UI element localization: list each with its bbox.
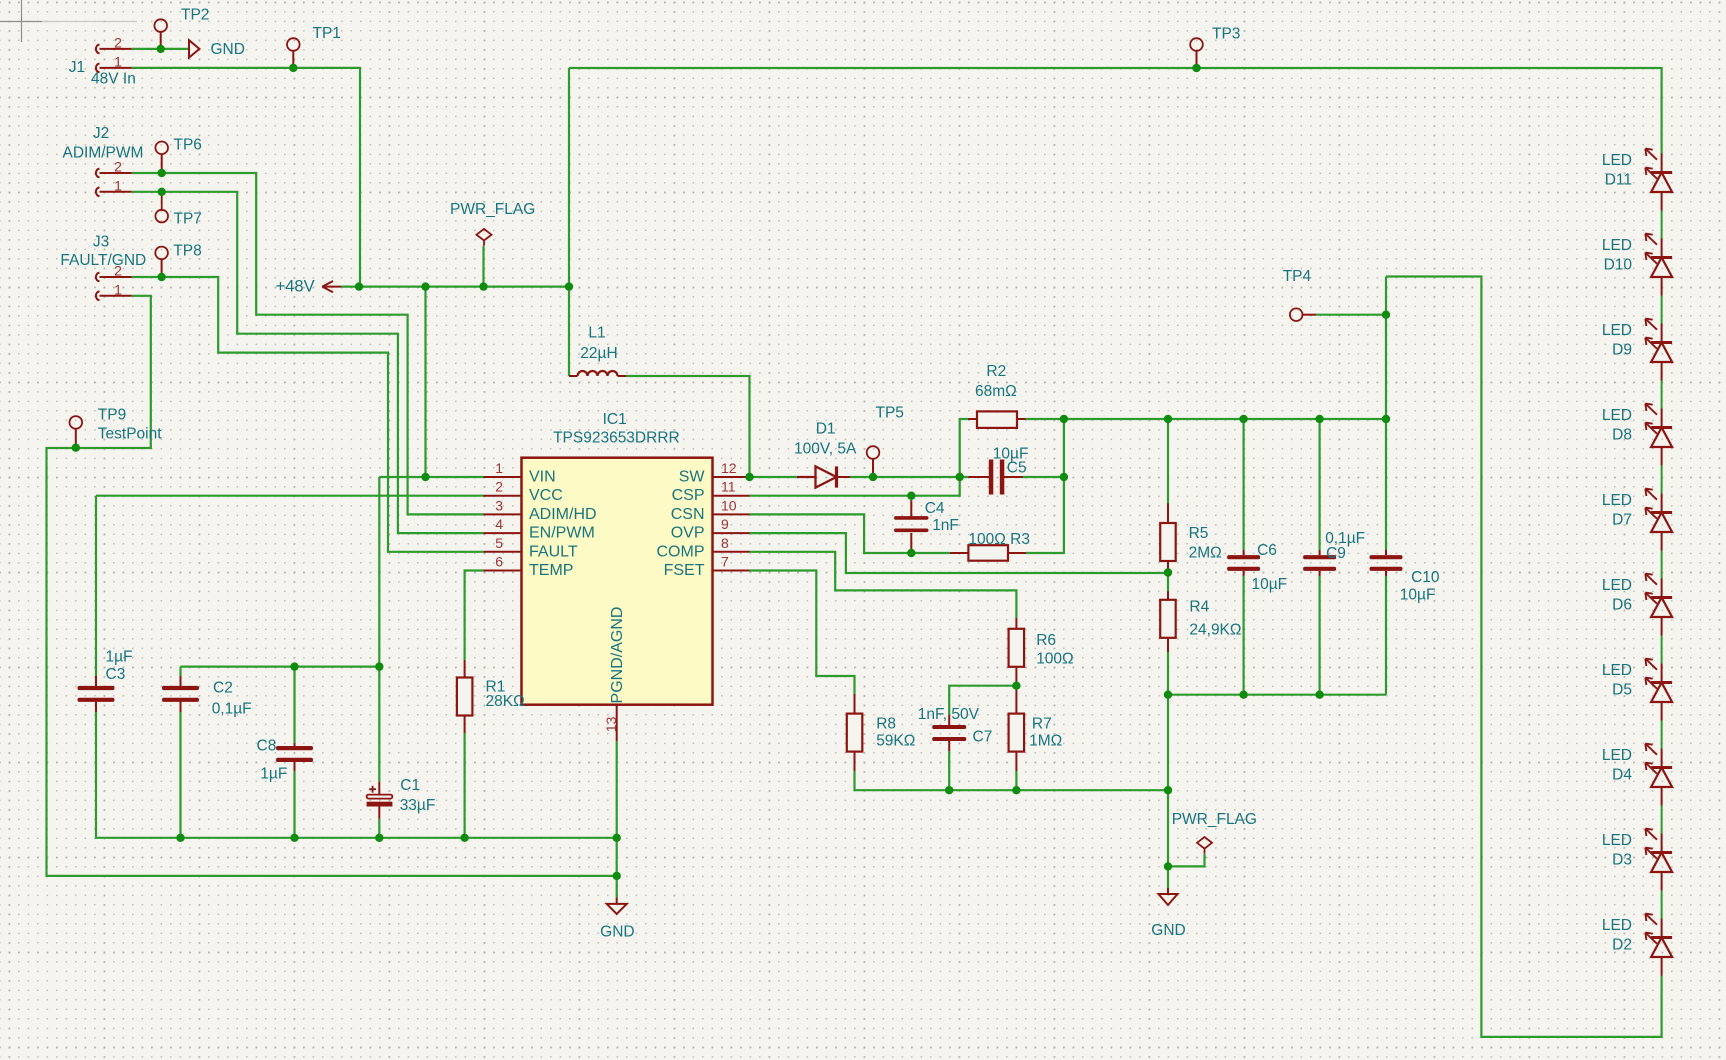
svg-text:ADIM/PWM: ADIM/PWM: [63, 145, 144, 162]
svg-text:IC1: IC1: [603, 411, 627, 428]
svg-text:J3: J3: [93, 234, 109, 251]
svg-text:3: 3: [495, 497, 503, 513]
svg-text:LED: LED: [1602, 832, 1632, 849]
svg-text:R8: R8: [876, 716, 896, 733]
svg-text:4: 4: [495, 516, 503, 532]
svg-text:8: 8: [721, 535, 729, 551]
svg-text:10µF: 10µF: [1252, 576, 1288, 593]
svg-text:C3: C3: [106, 666, 126, 683]
svg-text:28KΩ: 28KΩ: [486, 693, 525, 710]
svg-text:R4: R4: [1189, 599, 1209, 616]
svg-text:D8: D8: [1612, 427, 1632, 444]
svg-text:TP4: TP4: [1283, 268, 1312, 285]
svg-text:C5: C5: [1007, 459, 1027, 476]
svg-text:9: 9: [721, 516, 729, 532]
svg-text:D11: D11: [1605, 172, 1632, 189]
svg-text:FAULT/GND: FAULT/GND: [60, 252, 146, 269]
svg-text:D2: D2: [1612, 937, 1632, 954]
svg-text:TP8: TP8: [173, 243, 201, 260]
svg-text:2MΩ: 2MΩ: [1189, 545, 1222, 562]
svg-text:R5: R5: [1189, 525, 1209, 542]
svg-text:7: 7: [721, 554, 729, 570]
svg-text:VCC: VCC: [529, 487, 563, 504]
svg-text:48V In: 48V In: [91, 70, 136, 87]
svg-text:6: 6: [495, 554, 503, 570]
svg-text:100Ω R3: 100Ω R3: [968, 531, 1030, 548]
svg-text:TestPoint: TestPoint: [98, 425, 162, 442]
svg-text:GND: GND: [1151, 922, 1185, 939]
svg-text:100Ω: 100Ω: [1036, 651, 1073, 668]
svg-text:2: 2: [114, 159, 122, 175]
svg-text:C4: C4: [925, 500, 945, 517]
svg-text:ADIM/HD: ADIM/HD: [529, 506, 597, 523]
svg-text:GND: GND: [211, 41, 245, 58]
svg-text:GND: GND: [600, 924, 634, 941]
svg-text:+48V: +48V: [276, 277, 315, 295]
svg-text:1nF: 1nF: [932, 517, 959, 534]
svg-text:FSET: FSET: [664, 562, 705, 579]
svg-text:C10: C10: [1411, 569, 1440, 586]
svg-text:100V, 5A: 100V, 5A: [794, 440, 857, 457]
svg-text:C6: C6: [1257, 542, 1277, 559]
svg-text:59KΩ: 59KΩ: [876, 733, 915, 750]
svg-text:EN/PWM: EN/PWM: [529, 525, 595, 542]
svg-text:TP6: TP6: [174, 136, 202, 153]
svg-text:D4: D4: [1612, 767, 1632, 784]
svg-text:2: 2: [114, 34, 122, 50]
svg-text:D6: D6: [1612, 597, 1632, 614]
svg-text:OVP: OVP: [671, 525, 705, 542]
svg-text:1: 1: [495, 460, 503, 476]
svg-text:FAULT: FAULT: [529, 543, 578, 560]
svg-text:COMP: COMP: [657, 543, 705, 560]
svg-text:LED: LED: [1602, 237, 1632, 254]
svg-text:D9: D9: [1612, 342, 1632, 359]
svg-text:TP5: TP5: [876, 404, 904, 421]
svg-text:R2: R2: [986, 363, 1006, 380]
svg-text:VIN: VIN: [529, 469, 556, 486]
svg-text:1: 1: [114, 177, 122, 193]
svg-text:TP9: TP9: [98, 407, 126, 424]
svg-text:CSP: CSP: [672, 487, 705, 504]
svg-text:33µF: 33µF: [400, 797, 436, 814]
svg-text:CSN: CSN: [671, 506, 705, 523]
svg-text:1µF: 1µF: [260, 766, 287, 783]
svg-text:C7: C7: [973, 728, 993, 745]
svg-text:TPS923653DRRR: TPS923653DRRR: [553, 429, 680, 446]
svg-text:LED: LED: [1602, 662, 1632, 679]
svg-text:1: 1: [114, 53, 122, 69]
svg-text:C1: C1: [400, 777, 420, 794]
svg-text:1µF: 1µF: [106, 648, 133, 665]
svg-text:24,9KΩ: 24,9KΩ: [1189, 621, 1241, 638]
svg-text:D5: D5: [1612, 682, 1632, 699]
svg-text:D7: D7: [1612, 512, 1632, 529]
svg-text:C9: C9: [1326, 545, 1346, 562]
svg-text:PWR_FLAG: PWR_FLAG: [450, 201, 535, 218]
svg-text:5: 5: [495, 535, 503, 551]
svg-text:12: 12: [721, 460, 737, 476]
svg-text:TEMP: TEMP: [529, 562, 573, 579]
svg-text:LED: LED: [1602, 492, 1632, 509]
svg-text:SW: SW: [679, 469, 706, 486]
svg-text:LED: LED: [1602, 917, 1632, 934]
svg-text:2: 2: [495, 479, 503, 495]
svg-text:TP2: TP2: [181, 7, 209, 24]
svg-text:D10: D10: [1604, 257, 1633, 274]
svg-text:22µH: 22µH: [580, 345, 617, 362]
svg-text:10: 10: [721, 497, 737, 513]
svg-text:68mΩ: 68mΩ: [975, 383, 1017, 400]
svg-text:R6: R6: [1036, 632, 1056, 649]
svg-text:R7: R7: [1032, 716, 1052, 733]
svg-text:PGND/AGND: PGND/AGND: [609, 607, 626, 704]
svg-text:1: 1: [114, 281, 122, 297]
svg-text:C2: C2: [213, 680, 233, 697]
svg-text:TP1: TP1: [313, 25, 341, 42]
svg-text:11: 11: [721, 479, 736, 495]
svg-text:2: 2: [114, 263, 122, 279]
svg-text:TP3: TP3: [1212, 26, 1240, 43]
svg-text:D1: D1: [816, 420, 836, 437]
svg-text:10µF: 10µF: [1400, 586, 1436, 603]
svg-text:LED: LED: [1602, 152, 1632, 169]
svg-text:1nF, 50V: 1nF, 50V: [918, 706, 980, 723]
svg-text:PWR_FLAG: PWR_FLAG: [1172, 811, 1257, 828]
svg-text:J2: J2: [93, 125, 109, 142]
svg-text:13: 13: [603, 716, 619, 732]
svg-text:TP7: TP7: [174, 210, 202, 227]
svg-text:L1: L1: [588, 324, 605, 341]
svg-text:LED: LED: [1602, 322, 1632, 339]
svg-text:LED: LED: [1602, 747, 1632, 764]
svg-text:1MΩ: 1MΩ: [1029, 733, 1062, 750]
svg-text:LED: LED: [1602, 577, 1632, 594]
svg-text:C8: C8: [257, 738, 277, 755]
svg-text:0,1µF: 0,1µF: [212, 701, 252, 718]
svg-text:D3: D3: [1612, 852, 1632, 869]
svg-text:LED: LED: [1602, 407, 1632, 424]
svg-text:J1: J1: [69, 59, 85, 76]
